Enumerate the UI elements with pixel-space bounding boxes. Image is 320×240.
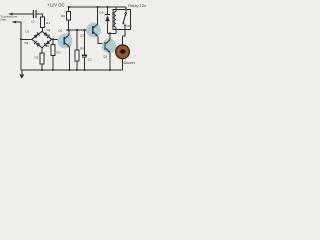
resistor R1 — [41, 17, 51, 28]
svg-text:R1: R1 — [46, 21, 50, 25]
svg-text:D1: D1 — [26, 30, 30, 34]
svg-text:Q1: Q1 — [59, 29, 63, 33]
diode D5 (flyback) — [100, 7, 111, 33]
wire Q1 emitter to ground rail — [68, 47, 70, 71]
svg-text:Relay 12v: Relay 12v — [128, 3, 146, 8]
svg-text:N/O: N/O — [127, 24, 132, 28]
svg-text:D5: D5 — [100, 10, 104, 14]
junction C2 — [83, 29, 85, 31]
node R3 tap — [52, 38, 54, 40]
transistor Q3 — [102, 39, 117, 59]
wire Q2 collector to rail — [97, 7, 99, 24]
wire node to R3 — [52, 39, 54, 44]
junction R6/collector — [68, 29, 70, 31]
ground rail — [21, 69, 123, 71]
wire Q2 emitter to Q3 base — [98, 36, 104, 43]
resistor R2 — [35, 53, 44, 64]
svg-text:R2: R2 — [35, 56, 39, 60]
wire buzzer to ground rail — [122, 59, 124, 70]
top +12V rail — [69, 6, 127, 8]
svg-text:D4: D4 — [46, 44, 50, 48]
wire phone line 2 — [13, 22, 21, 70]
wire Q3 collector up — [109, 33, 111, 40]
diode D4 (bottom-right edge) — [44, 40, 50, 46]
node: junction on left rail — [20, 38, 22, 40]
background — [0, 0, 150, 87]
svg-text:+12V DC: +12V DC — [47, 2, 65, 7]
wire Q1 collector up to node line — [68, 30, 70, 35]
resistor R6 — [61, 7, 70, 30]
buzzer — [116, 45, 136, 65]
relay coil — [114, 7, 116, 33]
ground symbol — [19, 70, 24, 79]
relay contact — [122, 7, 131, 28]
diamond wires — [32, 31, 52, 48]
arrowhead line 1 — [8, 13, 12, 16]
capacitor C2 — [82, 30, 92, 70]
wire coil bottom to collector node — [108, 32, 117, 34]
node line (Q1 collector net) — [66, 29, 93, 31]
capacitor C1 — [31, 10, 36, 24]
svg-text:lines: lines — [1, 18, 7, 22]
wire R3 to ground rail — [52, 55, 54, 70]
node rail start — [68, 6, 70, 8]
wire phone line 1 — [10, 13, 34, 15]
wire R2 to ground rail — [41, 64, 43, 70]
transistor Q2 — [80, 23, 101, 38]
resistor R3 — [51, 44, 61, 55]
svg-text:R5: R5 — [80, 47, 84, 51]
resistor R5 — [75, 30, 84, 70]
transistor Q1 — [58, 29, 73, 49]
junction D5 / coil return — [109, 32, 111, 34]
svg-text:Q3: Q3 — [103, 55, 107, 59]
junction dots on ground rail — [41, 69, 43, 71]
junction D5 / rail — [106, 6, 108, 8]
relay RL1 box — [113, 10, 131, 30]
arrowhead line 2 — [12, 21, 16, 24]
wire to bridge left — [21, 38, 32, 40]
wire bridge bottom to R2 — [41, 48, 43, 53]
wire bridge right to Q1 base — [52, 38, 64, 40]
diode D1 (top-left edge) — [34, 33, 40, 39]
svg-text:R6: R6 — [61, 14, 65, 18]
junction Q2 collector / rail — [97, 6, 99, 8]
diode D3 (bottom-left edge) — [34, 41, 40, 47]
wire contact to buzzer — [123, 26, 126, 45]
svg-text:D3: D3 — [25, 41, 29, 45]
junction R5 — [76, 29, 78, 31]
svg-text:C1: C1 — [31, 20, 35, 24]
svg-text:Q2: Q2 — [80, 34, 84, 38]
svg-text:Buzzer: Buzzer — [124, 61, 136, 65]
bridge rectifier D1-D4 — [25, 28, 52, 48]
wire R1 to bridge top — [42, 28, 44, 32]
svg-text:D2: D2 — [47, 28, 51, 32]
wire Q3 emitter to ground rail — [109, 52, 111, 70]
diode D2 (top-right edge) — [44, 32, 50, 38]
wire C1 to R1 — [37, 14, 43, 17]
svg-text:R3: R3 — [57, 51, 61, 55]
svg-text:C2: C2 — [88, 58, 92, 62]
